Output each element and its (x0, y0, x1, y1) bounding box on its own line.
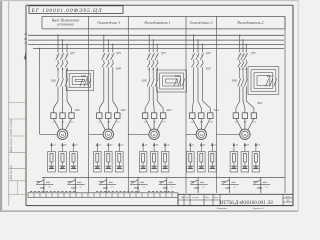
svg-text:КК5: КК5 (256, 102, 263, 105)
svg-text:А1: А1 (51, 121, 55, 124)
svg-text:QF2: QF2 (116, 52, 122, 55)
svg-text:КМ6: КМ6 (174, 75, 181, 78)
svg-text:QF4: QF4 (206, 52, 212, 55)
svg-text:Лист: Лист (285, 197, 291, 199)
svg-text:Подп. и дата: Подп. и дата (10, 119, 13, 136)
svg-text:установка: установка (56, 23, 74, 27)
svg-text:ПВ8: ПВ8 (256, 187, 263, 190)
svg-text:ЕГ 100001.00ФЭ95.ЦЛ: ЕГ 100001.00ФЭ95.ЦЛ (31, 8, 103, 14)
svg-text:Охлаждение 1: Охлаждение 1 (97, 21, 120, 25)
svg-text:QF3: QF3 (161, 52, 167, 55)
svg-text:Взам. инв №: Взам. инв № (10, 137, 13, 152)
svg-text:С1: С1 (71, 121, 74, 124)
svg-text:КМ9: КМ9 (231, 80, 238, 83)
svg-text:Дата: Дата (213, 197, 218, 199)
svg-text:КМ10: КМ10 (266, 75, 274, 78)
svg-text:КМ1: КМ1 (50, 80, 57, 83)
svg-text:КМ5: КМ5 (141, 80, 148, 83)
svg-text:Расходователь 2: Расходователь 2 (236, 21, 263, 25)
svg-text:КК3: КК3 (166, 109, 173, 112)
svg-text:ПВ2: ПВ2 (70, 187, 77, 190)
svg-text:ПВ1: ПВ1 (39, 187, 46, 190)
svg-text:Копировал: Копировал (216, 208, 227, 210)
svg-text:ПВ6: ПВ6 (193, 187, 200, 190)
svg-text:КМ2: КМ2 (80, 75, 87, 78)
svg-text:М: М (200, 133, 203, 137)
svg-text:ИТ756.Д-Ф30100.001 Э3: ИТ756.Д-Ф30100.001 Э3 (219, 200, 274, 206)
svg-text:QF5: QF5 (251, 52, 257, 55)
svg-text:КК1: КК1 (74, 109, 81, 112)
svg-text:КК4: КК4 (213, 109, 220, 112)
svg-text:Охлаждение 2: Охлаждение 2 (190, 21, 213, 25)
svg-text:Подп.: Подп. (204, 196, 210, 199)
svg-text:ПВ5: ПВ5 (162, 187, 169, 190)
svg-text:Инв. № подл.: Инв. № подл. (10, 164, 13, 180)
svg-text:ПВ4: ПВ4 (133, 187, 140, 190)
svg-text:КМ7: КМ7 (205, 67, 212, 70)
svg-text:Лист: Лист (184, 197, 190, 199)
svg-text:№ докум.: № докум. (191, 196, 200, 199)
svg-text:М: М (243, 133, 246, 137)
svg-text:М: М (153, 133, 156, 137)
svg-text:М: М (107, 133, 110, 137)
svg-text:Расходователь 1: Расходователь 1 (143, 21, 170, 25)
svg-text:Формат А4: Формат А4 (253, 207, 265, 210)
svg-text:QF1: QF1 (70, 52, 76, 55)
svg-text:М: М (61, 133, 64, 137)
svg-text:ПВ7: ПВ7 (224, 187, 231, 190)
svg-text:КМ3: КМ3 (115, 67, 122, 70)
svg-text:КК2: КК2 (120, 109, 127, 112)
svg-text:ПВ3: ПВ3 (102, 187, 109, 190)
